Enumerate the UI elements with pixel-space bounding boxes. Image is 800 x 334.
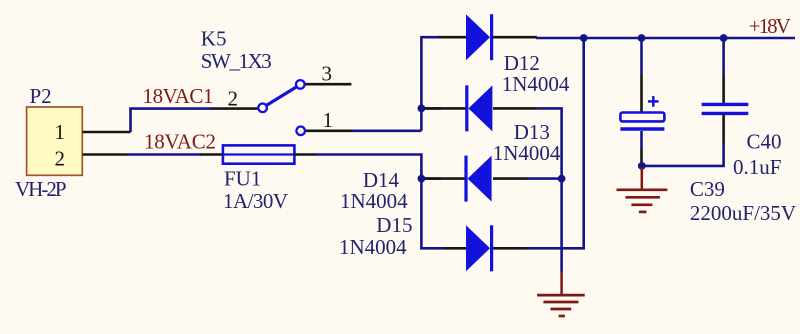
svg-text:2: 2 — [55, 147, 66, 171]
svg-text:1A/30V: 1A/30V — [223, 189, 288, 213]
switch K5 pin 3 — [305, 83, 351, 86]
switch K5 throw contact circle pin1 — [296, 127, 305, 136]
wire 18VAC2 from P2 pin2 to fuse — [128, 153, 202, 156]
svg-text:1N4004: 1N4004 — [502, 72, 570, 96]
svg-text:3: 3 — [322, 62, 333, 86]
capacitor C39 — [620, 96, 664, 129]
wire left bus 18VAC1 vertical up to D12 row — [421, 37, 441, 131]
svg-text:1: 1 — [323, 108, 334, 132]
fuse FU1 left pin — [200, 153, 223, 156]
diode D14 right pin — [493, 177, 527, 180]
node junction D14 ground bus — [558, 175, 566, 183]
wire right bus from rail down to D15 cathode — [527, 38, 584, 248]
diode D15 — [466, 225, 492, 271]
diode D15 left pin — [443, 247, 466, 250]
svg-text:2: 2 — [228, 87, 239, 111]
fuse FU1 body — [223, 145, 295, 163]
node junction D13 left bus — [418, 105, 426, 113]
P2 pin 1 — [83, 131, 131, 134]
diode D13 right pin — [493, 107, 537, 110]
svg-text:+18V: +18V — [749, 14, 791, 38]
switch K5 pivot contact circle — [258, 104, 267, 113]
node junction C39 bottom — [638, 162, 646, 170]
svg-text:1N4004: 1N4004 — [340, 189, 408, 213]
switch K5 lever — [266, 87, 297, 106]
ground stem bottom (red) — [560, 272, 563, 296]
capacitor C40 top pin — [722, 74, 725, 104]
wire stub to D14 — [421, 177, 441, 180]
switch K5 pin 1 — [305, 130, 352, 133]
fuse FU1 right pin — [294, 153, 316, 156]
svg-text:18VAC2: 18VAC2 — [144, 130, 216, 154]
capacitor C40 — [702, 104, 749, 113]
diode D12 — [466, 14, 492, 60]
ground stem C39 (red) — [641, 168, 644, 191]
svg-text:C40: C40 — [747, 130, 782, 154]
switch K5 pin 2 — [212, 107, 258, 110]
wire stub to D13 — [421, 107, 441, 110]
ground symbol under C39 — [617, 190, 668, 212]
wire 18VAC1 from P2 pin1 up to net label row — [131, 109, 213, 132]
wire +18V rail — [536, 37, 795, 40]
node junction rail at C40 — [720, 34, 728, 42]
diode D14 left pin — [425, 177, 466, 180]
node junction D14 left bus — [418, 175, 426, 183]
switch K5 throw contact circle pin3 — [296, 80, 305, 89]
svg-text:C39: C39 — [690, 177, 725, 201]
wire from switch pin1 to left bus — [352, 130, 421, 133]
svg-text:1N4004: 1N4004 — [339, 235, 407, 259]
svg-text:FU1: FU1 — [224, 167, 261, 191]
node junction rail at right bus — [580, 34, 588, 42]
svg-text:K5: K5 — [201, 27, 227, 51]
diode D15 right pin — [493, 247, 527, 250]
wire C39 bottom to C40 bottom — [642, 143, 724, 166]
capacitor C39 top pin — [640, 74, 643, 113]
wire from fuse to lower left bus down to D15 row — [316, 155, 443, 249]
svg-text:VH-2P: VH-2P — [15, 177, 67, 201]
svg-text:1N4004: 1N4004 — [493, 141, 561, 165]
wire ground bus from D13 anode down to bottom ground — [537, 108, 562, 271]
connector P2 body — [27, 107, 83, 175]
wire D14 anode to ground bus — [527, 177, 562, 180]
svg-text:18VAC1: 18VAC1 — [143, 84, 214, 108]
node junction rail at C39 — [638, 34, 646, 42]
svg-text:SW_1X3: SW_1X3 — [201, 49, 272, 73]
svg-text:2200uF/35V: 2200uF/35V — [690, 201, 796, 225]
diode D12 left pin — [439, 36, 466, 39]
ground symbol bottom — [537, 295, 585, 316]
svg-text:1: 1 — [55, 120, 66, 144]
svg-text:D15: D15 — [376, 213, 412, 237]
capacitor C39 bottom pin — [640, 131, 643, 149]
wire rail to C40 — [722, 38, 725, 74]
diode D12 right pin — [493, 36, 537, 39]
svg-text:0.1uF: 0.1uF — [733, 155, 781, 179]
svg-text:P2: P2 — [30, 84, 52, 108]
diode D14 — [466, 156, 492, 202]
diode D13 left pin — [425, 107, 466, 110]
wire rail to C39 — [640, 38, 643, 74]
diode D13 — [467, 85, 493, 131]
capacitor C40 bottom pin — [722, 113, 725, 143]
P2 pin 2 — [83, 153, 128, 156]
